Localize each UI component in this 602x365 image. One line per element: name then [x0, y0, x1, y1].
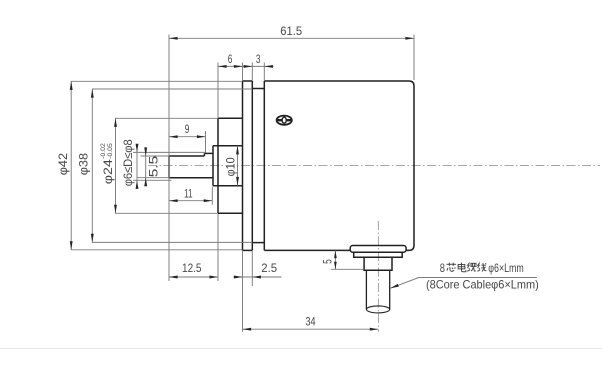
- seat front face: [212, 146, 214, 186]
- arrow dia10 top: [236, 146, 239, 155]
- svg-text:-0.05: -0.05: [107, 143, 114, 159]
- cable label hanzi dian: [458, 263, 466, 272]
- cable left edge: [365, 270, 367, 309]
- arrow 5 gland bottom: [334, 262, 337, 270]
- arrow dia24 bottom: [114, 205, 117, 214]
- flange top edge: [243, 80, 253, 82]
- dim line dia42: [70, 81, 72, 250]
- arrow 2.5 left: [234, 276, 243, 279]
- seat bottom edge: [213, 185, 243, 187]
- svg-text:φ6≤D≤φ8: φ6≤D≤φ8: [121, 139, 135, 186]
- body bottom edge: [264, 249, 350, 251]
- leader line: [390, 278, 537, 289]
- dim line 9: [169, 136, 206, 138]
- svg-text:3: 3: [256, 52, 261, 66]
- svg-text:8: 8: [440, 261, 445, 275]
- arrow 9 left: [169, 135, 178, 138]
- dim line dia38: [91, 89, 93, 242]
- arrow 9 right: [197, 135, 206, 138]
- svg-text:(8Core Cableφ6×Lmm): (8Core Cableφ6×Lmm): [426, 277, 539, 291]
- arrow 6 right: [234, 65, 243, 68]
- svg-text:φ24: φ24: [101, 159, 115, 184]
- arrow dia42 bottom: [70, 241, 73, 250]
- centerline horizontal: [148, 165, 600, 167]
- boss top edge: [218, 117, 243, 119]
- ext line gland bottom: [331, 268, 364, 270]
- svg-text:-0.02: -0.02: [100, 143, 107, 159]
- ext line dia42 top: [71, 80, 242, 82]
- ext line flange right lower: [251, 251, 253, 286]
- dim line 3 tail: [252, 65, 273, 67]
- ring bottom edge: [252, 242, 264, 244]
- shaft flat top edge: [169, 155, 204, 157]
- screw head ellipse: [277, 116, 292, 125]
- ext line flange right upper: [251, 63, 253, 81]
- arrow 11 right: [204, 199, 213, 202]
- svg-text:11: 11: [184, 186, 193, 200]
- flange right face: [251, 81, 253, 250]
- cable label hanzi xin: [447, 263, 457, 272]
- arrow dia10 bottom: [236, 177, 239, 186]
- ext line flat top: [141, 155, 169, 157]
- arrow 2.5 right: [252, 276, 261, 279]
- arrow dia24 top: [114, 118, 117, 127]
- body left face: [263, 81, 265, 250]
- arrow 12.5 left: [169, 276, 178, 279]
- arrow 12.5 right: [209, 276, 218, 279]
- svg-text:2.5: 2.5: [261, 261, 277, 275]
- arrow 34 left: [243, 328, 252, 331]
- shaft end face: [168, 156, 170, 178]
- ext line flange left lower: [242, 251, 244, 332]
- dim line shaft dia: [136, 144, 138, 189]
- ext line dia24 top: [115, 117, 218, 119]
- cable label hanzi xian: [477, 263, 486, 272]
- svg-text:12.5: 12.5: [182, 261, 202, 275]
- arrow 5.5 top: [144, 147, 147, 156]
- dim line 12.5: [169, 276, 218, 278]
- arrow 61.5 left: [169, 37, 178, 40]
- ext line shaft dia top: [133, 151, 205, 153]
- arrow 5.5 bottom: [144, 178, 147, 187]
- svg-text:34: 34: [306, 315, 316, 329]
- dim line 6: [218, 65, 252, 67]
- dim line 11: [169, 200, 212, 202]
- ext line seat face: [211, 187, 213, 205]
- ext line dia38 top: [92, 88, 252, 90]
- screw slot: [277, 119, 291, 121]
- arrow 5 gland top: [334, 251, 337, 259]
- ext line dia24 bottom: [115, 212, 218, 214]
- ext line shaft tip: [168, 35, 170, 282]
- seat top edge: [213, 145, 243, 147]
- arrow dia38 bottom: [91, 234, 94, 243]
- arrow 61.5 right: [405, 37, 414, 40]
- screw center oval: [282, 117, 286, 123]
- shaft step: [203, 153, 205, 156]
- ext line body right: [413, 35, 415, 81]
- arrow 3 right: [264, 65, 273, 68]
- cable end ellipse: [366, 306, 389, 313]
- arrow 6 left: [218, 65, 227, 68]
- cable right edge: [389, 270, 391, 309]
- arrow shaft dia top: [136, 144, 139, 153]
- ext line flat bottom: [138, 177, 169, 179]
- dim line dia10: [237, 146, 239, 186]
- svg-text:9: 9: [185, 122, 190, 136]
- ext line dia38 bottom: [92, 241, 252, 243]
- ext line boss face lower: [217, 214, 219, 281]
- gland tier3: [364, 257, 392, 270]
- svg-text:6: 6: [228, 52, 233, 66]
- arrow dia42 top: [70, 81, 73, 90]
- svg-text:φ10: φ10: [224, 157, 238, 176]
- gland tier2: [354, 252, 403, 257]
- ext line body left upper: [263, 63, 265, 81]
- svg-text:φ6×Lmm: φ6×Lmm: [488, 261, 524, 275]
- arrow dia38 top: [91, 89, 94, 98]
- svg-text:5.5: 5.5: [146, 155, 160, 177]
- shaft bottom edge: [169, 177, 213, 179]
- gland plate tier1: [350, 246, 406, 253]
- sheet edge line: [0, 348, 602, 350]
- dim line 34: [243, 328, 379, 330]
- boss bottom edge: [218, 212, 243, 214]
- arrow 34 right: [370, 328, 379, 331]
- leader arrow: [390, 284, 399, 288]
- ext line flange left upper: [242, 63, 244, 81]
- svg-text:φ42: φ42: [56, 153, 70, 176]
- dim line 5.5: [145, 148, 147, 187]
- ext line dia42 bottom: [71, 249, 242, 251]
- svg-text:5: 5: [321, 259, 335, 264]
- flange bottom edge: [243, 249, 253, 251]
- flange left face: [242, 81, 244, 250]
- dim line dia24: [115, 118, 117, 213]
- ext line shaft dia bottom: [133, 179, 172, 181]
- shaft round top edge: [204, 152, 213, 154]
- ext line shaft step: [205, 131, 207, 153]
- arrow 3 left: [244, 65, 253, 68]
- arrow shaft dia bottom: [136, 180, 139, 189]
- ring top edge: [252, 88, 264, 90]
- cable label hanzi lan: [467, 263, 476, 272]
- arrow 11 left: [169, 199, 178, 202]
- body outline: [264, 81, 414, 250]
- svg-text:61.5: 61.5: [280, 24, 302, 38]
- dim line 61.5: [169, 37, 414, 39]
- dim line 2.5: [234, 276, 282, 278]
- ext line boss face upper: [217, 63, 219, 119]
- centerline cable vertical: [377, 221, 379, 332]
- dim line 5 gland: [334, 251, 336, 270]
- boss front face: [217, 118, 219, 213]
- svg-text:φ38: φ38: [76, 153, 90, 176]
